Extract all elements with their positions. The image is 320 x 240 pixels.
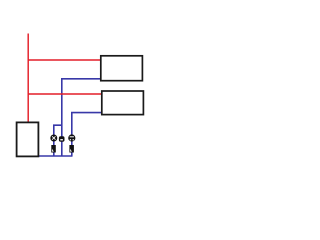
- lamp L2 (circle with bar): [68, 134, 75, 141]
- wire: blue N return from box 2 (horizontal + vertical drop): [72, 113, 102, 156]
- lamp L1 (circle with cross): [50, 135, 57, 142]
- wire: red L feeder vertical: [27, 34, 29, 122]
- wire: blue N return from box 1 (horizontal + vertical drop): [62, 79, 101, 156]
- switch S2: [69, 145, 74, 153]
- connector junction (square with bar): [59, 136, 65, 141]
- load box 1: [101, 56, 143, 81]
- switch S1: [51, 145, 56, 153]
- load box 2: [102, 91, 144, 115]
- distribution box: [17, 122, 39, 156]
- wire: blue branch jog to lamp 1 drop: [54, 125, 62, 156]
- wire: blue N bus to distribution box: [39, 155, 73, 157]
- wire: red branch to load box 2: [28, 93, 102, 95]
- wire: red branch to load box 1: [28, 59, 101, 61]
